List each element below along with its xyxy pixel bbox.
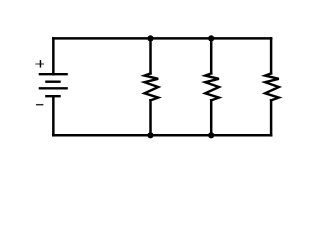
wire resistor R2 top lead (210, 38, 213, 73)
node junction dot R2 top (208, 35, 214, 41)
wire resistor R1 top lead (149, 38, 152, 73)
label plus sign (battery positive) (35, 63, 44, 65)
wire top rail (53, 37, 271, 40)
battery B1 plate short upper (46, 80, 59, 82)
node junction dot R1 top (147, 35, 153, 41)
resistor R1 zigzag (145, 73, 159, 100)
wire resistor R3 bottom lead (270, 100, 273, 135)
wire resistor R3 top lead (right side) (270, 38, 273, 73)
wire resistor R1 bottom lead (149, 100, 152, 135)
wire bottom rail (53, 134, 271, 137)
resistor R3 zigzag (265, 73, 279, 100)
node junction dot R1 bottom (147, 132, 153, 138)
battery B1 plate short bottom (-) (46, 95, 59, 97)
resistor R2 zigzag (205, 73, 219, 100)
node junction dot R2 bottom (208, 132, 214, 138)
label minus sign (battery negative) (36, 104, 43, 106)
battery B1 plate long top (+) (40, 73, 67, 75)
battery B1 plate long lower (40, 87, 67, 89)
wire resistor R2 bottom lead (210, 100, 213, 135)
wire left top segment (top rail to battery +) (52, 38, 55, 74)
wire left bottom segment (battery - to bottom rail) (52, 96, 55, 135)
